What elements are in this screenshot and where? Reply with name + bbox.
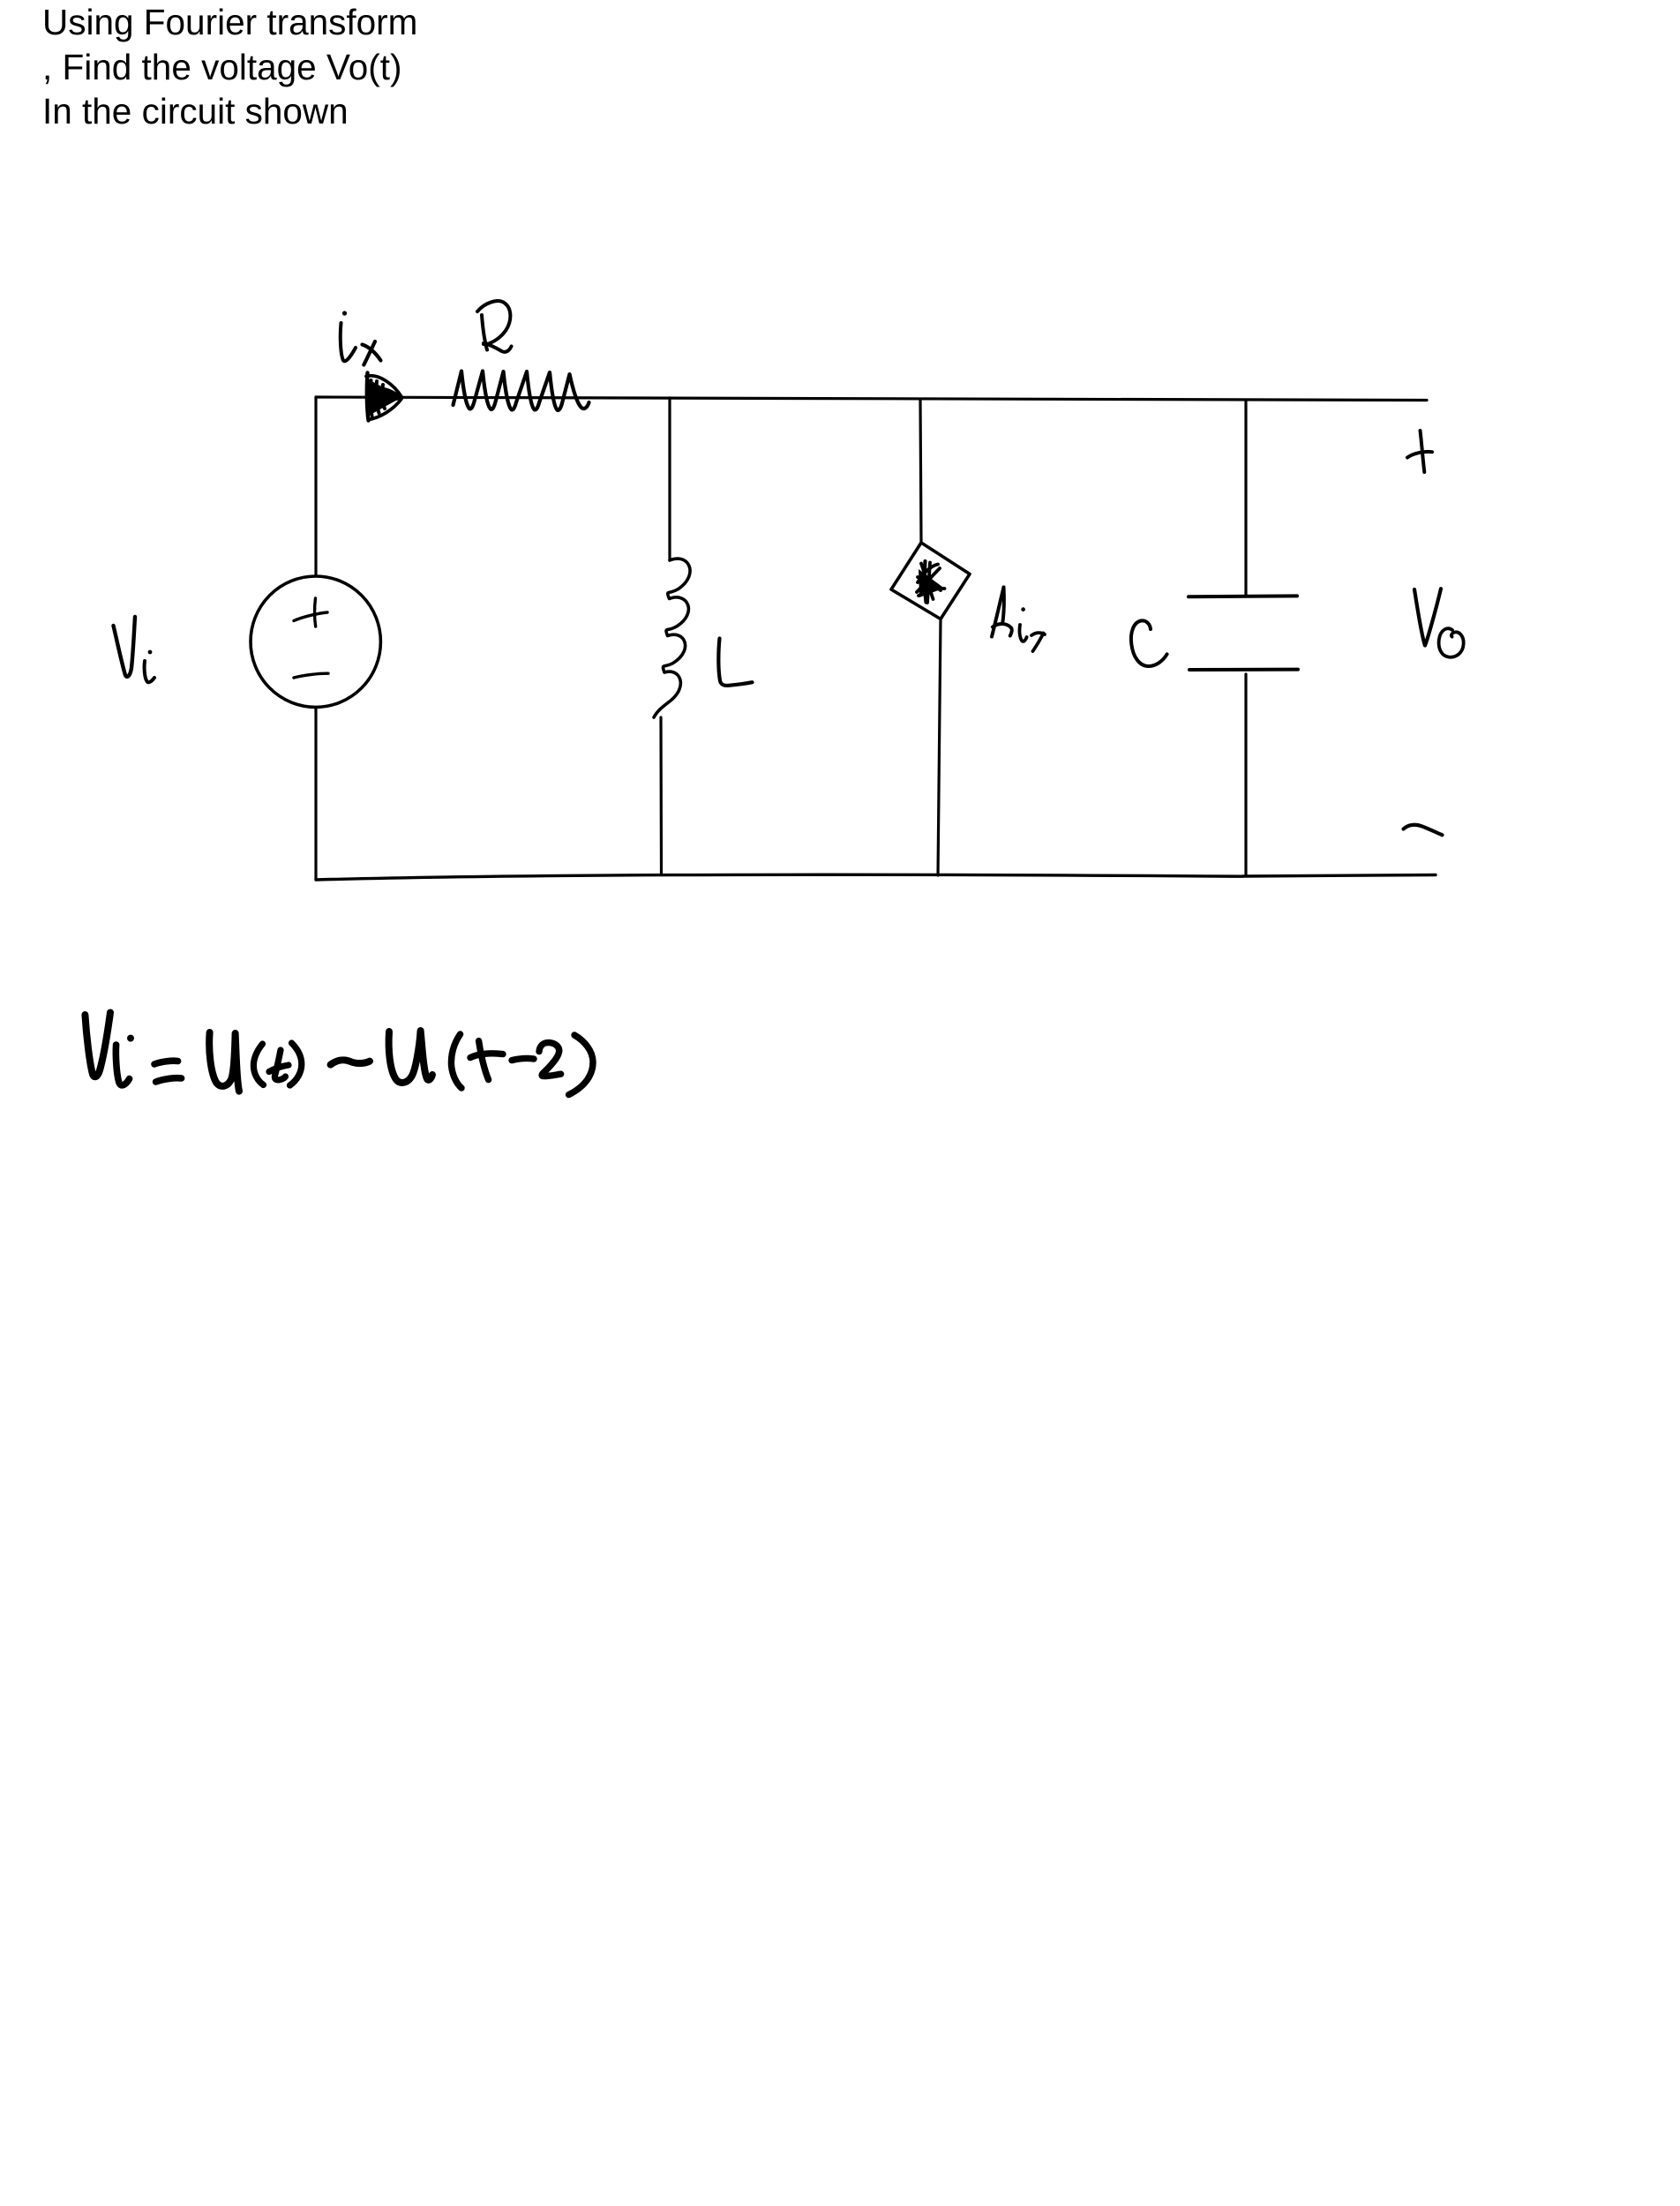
equation term U(t-2) xyxy=(389,1031,432,1083)
equation equals sign xyxy=(154,1061,178,1064)
output port minus sign xyxy=(1404,825,1443,836)
inductor L coil (4 bumps) xyxy=(654,559,690,717)
current arrow ix (scribbled arrowhead on top wire) xyxy=(367,379,401,416)
wire: inductor top lead xyxy=(668,398,671,560)
wire: bottom rail right extension xyxy=(1242,875,1436,877)
equation minus sign xyxy=(331,1060,370,1064)
wire: left vertical (source top lead) xyxy=(314,397,317,576)
voltage source Vi circle xyxy=(251,576,380,707)
wire: source bottom lead xyxy=(314,708,317,881)
resistor R zigzag xyxy=(454,371,589,410)
problem statement text xyxy=(42,0,417,134)
wire: dependent source top lead xyxy=(920,400,921,543)
label ix xyxy=(342,311,347,315)
wire: capacitor top lead xyxy=(1244,401,1247,596)
wire: bottom horizontal rail xyxy=(316,874,1242,880)
capacitor C plates xyxy=(1189,594,1297,598)
output port plus sign xyxy=(1421,431,1425,472)
label R xyxy=(477,301,510,344)
wire: capacitor bottom lead xyxy=(1244,674,1247,875)
label L xyxy=(718,639,752,686)
label A ix xyxy=(992,588,1004,637)
equation term Vi xyxy=(85,1013,110,1077)
wire: dependent source bottom lead xyxy=(938,619,941,875)
label Vi xyxy=(114,617,136,677)
dependent current source Aix (diamond) xyxy=(891,543,970,619)
equation term U(t) xyxy=(209,1032,239,1092)
wire: top horizontal rail xyxy=(316,397,1427,401)
label Vo xyxy=(1414,589,1441,645)
scribbled up-arrow inside diamond xyxy=(919,569,944,597)
label C xyxy=(1131,620,1167,666)
minus sign inside source xyxy=(294,673,328,678)
wire: inductor bottom lead xyxy=(659,717,663,874)
plus sign inside source xyxy=(315,598,316,627)
